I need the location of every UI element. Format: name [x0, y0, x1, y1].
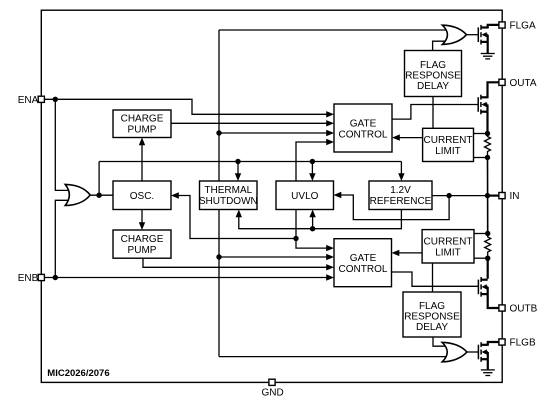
wire UVLO to OSC enable: [171, 192, 296, 238]
svg-text:DELAY: DELAY: [416, 322, 448, 333]
svg-text:OUTB: OUTB: [510, 304, 538, 315]
resistor sense B: [485, 234, 491, 259]
box charge pump A: [113, 110, 171, 138]
wire bias riser from OR output node: [98, 162, 100, 196]
box flag response delay A: [405, 51, 462, 97]
transistor pass MOSFET A: [478, 82, 499, 133]
wire thermal flag line bottom to OR B: [219, 356, 448, 358]
wire arrow into UVLO top: [309, 162, 315, 182]
wire current limit B to gate control B: [392, 250, 423, 256]
node thermal line to gate control A: [216, 130, 221, 135]
svg-text:DELAY: DELAY: [417, 81, 449, 92]
svg-text:THERMAL: THERMAL: [204, 185, 252, 196]
wire ENA branch down to enable OR input 1: [55, 99, 72, 190]
wire OSC to charge pump B: [139, 210, 145, 231]
OR gate flag B: [442, 342, 467, 361]
wire OR A output to flag MOSFET A gate: [466, 34, 478, 36]
svg-text:LIMIT: LIMIT: [435, 146, 461, 157]
wire UVLO top output to gate control A input 4: [296, 139, 334, 181]
resistor sense A: [485, 134, 491, 158]
wire flag MOSFET A source to ground: [487, 42, 489, 54]
pin FLGA: [499, 21, 536, 32]
wire current limit B sense stubs: [474, 234, 488, 259]
wire UVLO bottom output to gate control B input 1: [296, 210, 334, 252]
wire reference bottom output: [236, 210, 402, 229]
svg-text:GATE: GATE: [350, 253, 377, 264]
node UVLO output to OSC branch: [293, 236, 298, 241]
node thermal line to gate control B: [216, 254, 221, 259]
node bias line at thermal arrow: [235, 159, 240, 164]
wire thermal to gate control B input 2: [219, 254, 334, 260]
pin OUTA: [499, 78, 537, 89]
svg-text:CONTROL: CONTROL: [339, 264, 388, 275]
pin FLGB: [499, 338, 536, 349]
wire ENB horizontal to gate control B input 4: [44, 277, 330, 279]
box 1.2V reference: [369, 181, 432, 210]
ground flag B: [481, 370, 495, 376]
svg-text:PUMP: PUMP: [128, 125, 157, 136]
svg-text:OUTA: OUTA: [510, 78, 537, 89]
wire thermal to gate control A input 3: [219, 130, 334, 136]
svg-text:GATE: GATE: [350, 119, 377, 130]
wire IN sense to UVLO right input: [334, 192, 450, 220]
wire current limit A to gate control A: [392, 134, 423, 140]
wire arrow into thermal shutdown top: [235, 162, 241, 182]
svg-text:FLGB: FLGB: [510, 338, 536, 349]
svg-text:ENB: ENB: [18, 273, 39, 284]
wire gate control B output to MOSFET gate: [392, 272, 479, 286]
box OSC: [113, 181, 171, 210]
wire IN vertical rail: [487, 158, 489, 234]
svg-text:PUMP: PUMP: [128, 245, 157, 256]
pin ENA: [18, 95, 45, 106]
wire flag response delay B to OR B: [433, 337, 450, 346]
pin IN: [499, 191, 520, 202]
svg-text:UVLO: UVLO: [291, 191, 318, 202]
box gate control B: [334, 239, 392, 287]
gate control A input arrows: [326, 111, 334, 126]
wire OR B output to flag MOSFET B gate: [467, 351, 479, 353]
svg-text:CURRENT: CURRENT: [424, 135, 473, 146]
node reference line at UVLO branch: [310, 226, 315, 231]
node sense resistor B bottom: [485, 256, 490, 261]
wire IN pin to reference: [432, 195, 499, 197]
wire reference output branch to UVLO bottom: [309, 210, 315, 229]
box current limit A: [423, 128, 474, 161]
box thermal shutdown: [199, 181, 258, 210]
transistor flag MOSFET A: [478, 25, 499, 45]
wire charge pump B output to gate control B input 3: [143, 258, 330, 267]
svg-text:RESPONSE: RESPONSE: [405, 71, 461, 82]
wire OSC to charge pump A: [139, 138, 145, 182]
wire current limit B to flag response delay B: [432, 263, 434, 292]
wire enable OR output to OSC: [88, 194, 113, 196]
svg-text:IN: IN: [510, 191, 520, 202]
node IN wire at UVLO sense: [446, 193, 451, 198]
ground flag A: [481, 54, 495, 59]
svg-text:MIC2026/2076: MIC2026/2076: [47, 368, 109, 379]
wire thermal flag line top to OR A: [219, 29, 448, 31]
node ENA junction: [53, 97, 58, 102]
svg-text:CHARGE: CHARGE: [121, 234, 164, 245]
box current limit B: [422, 230, 474, 263]
wire arrow into 1.2V reference top: [398, 162, 404, 182]
pin GND: [261, 379, 283, 398]
box UVLO: [276, 181, 334, 210]
wire gate control A output to MOSFET gate: [392, 105, 478, 120]
label MIC2026/2076: [47, 368, 109, 379]
box flag response delay B: [403, 292, 461, 337]
wire thermal flag vertical: [218, 30, 220, 357]
pin ENB: [18, 273, 45, 284]
OR gate flag A: [442, 25, 466, 44]
transistor flag MOSFET B: [478, 342, 499, 362]
node bias line at UVLO arrow: [310, 159, 315, 164]
gate control B input arrows: [326, 264, 334, 281]
node sense resistor A bottom: [485, 155, 490, 160]
wire current limit A to flag response delay A: [432, 97, 434, 129]
svg-text:SHUTDOWN: SHUTDOWN: [199, 196, 258, 207]
wire ENA horizontal to step: [44, 99, 330, 114]
wire flag response delay A to OR A: [433, 41, 450, 50]
pin OUTB: [499, 304, 538, 315]
svg-text:FLGA: FLGA: [510, 21, 536, 32]
node IN wire at rail: [485, 193, 490, 198]
wire charge pump A output to gate control A input 2: [171, 122, 330, 124]
node enable OR output junction: [96, 193, 101, 198]
wire ENB branch up to enable OR input 2: [55, 200, 72, 277]
transistor pass MOSFET B: [478, 258, 499, 308]
svg-text:FLAG: FLAG: [419, 301, 445, 312]
OR gate enable (ENA/ENB): [65, 184, 90, 205]
wire flag MOSFET B source to ground: [487, 359, 489, 370]
svg-text:REFERENCE: REFERENCE: [370, 196, 432, 207]
wire current limit A sense stubs: [474, 134, 488, 158]
box gate control A: [334, 104, 392, 152]
svg-text:FLAG: FLAG: [420, 60, 446, 71]
svg-text:CONTROL: CONTROL: [339, 130, 388, 141]
node sense resistor B top: [485, 231, 490, 236]
svg-text:1.2V: 1.2V: [390, 185, 411, 196]
node sense resistor A top: [485, 131, 490, 136]
box charge pump B: [113, 230, 171, 258]
svg-text:RESPONSE: RESPONSE: [404, 312, 460, 323]
IC boundary frame: [41, 10, 502, 382]
svg-text:LIMIT: LIMIT: [435, 248, 461, 259]
svg-text:CHARGE: CHARGE: [121, 114, 164, 125]
svg-text:ENA: ENA: [18, 95, 39, 106]
node ENB junction: [53, 275, 58, 280]
svg-text:GND: GND: [261, 388, 283, 399]
svg-text:CURRENT: CURRENT: [424, 237, 473, 248]
svg-text:OSC.: OSC.: [130, 191, 154, 202]
wire bias line to thermal/uvlo/reference tops: [99, 161, 401, 163]
